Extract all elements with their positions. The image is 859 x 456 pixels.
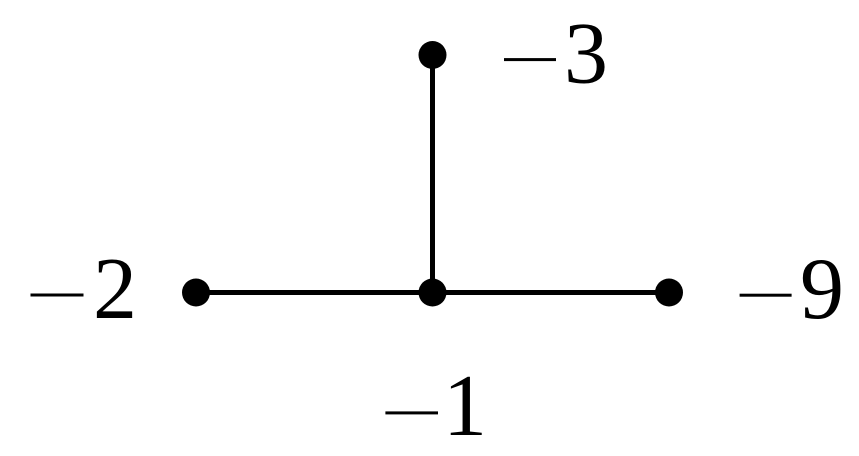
wire horizontal edge	[196, 290, 669, 295]
label -3	[504, 6, 608, 103]
node top	[419, 41, 447, 69]
svg-text:9: 9	[800, 241, 844, 338]
node left	[182, 279, 210, 307]
wire vertical edge	[430, 55, 435, 293]
svg-text:1: 1	[443, 358, 487, 455]
node center	[419, 279, 447, 307]
svg-text:3: 3	[564, 6, 608, 103]
label -9	[740, 241, 844, 338]
node right	[655, 279, 683, 307]
svg-text:2: 2	[93, 241, 137, 338]
label -2	[31, 241, 138, 338]
label -1	[385, 358, 487, 455]
